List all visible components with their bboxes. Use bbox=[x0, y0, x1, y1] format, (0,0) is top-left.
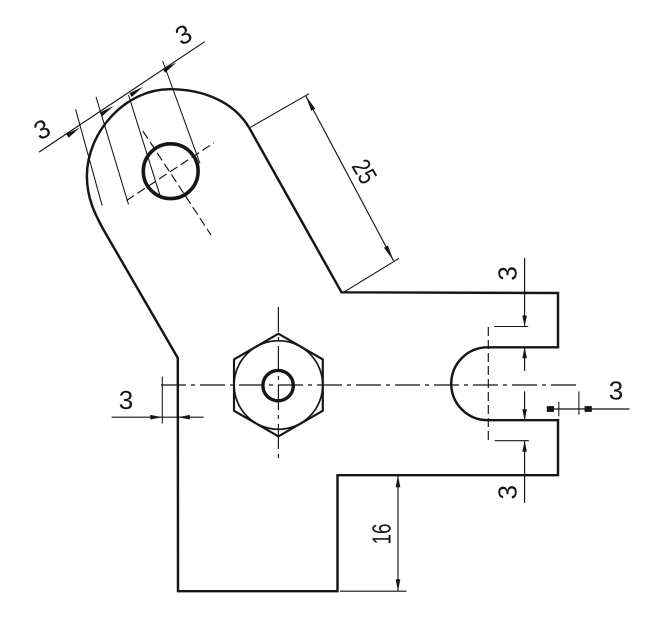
arm hole bbox=[143, 144, 198, 199]
chain arrow 4 bbox=[163, 63, 177, 73]
slot bottom dim down arrow bbox=[522, 409, 527, 420]
dim 16 extension line bbox=[340, 590, 406, 592]
right dim tick 1 bbox=[558, 402, 560, 416]
hex boss bbox=[234, 334, 323, 437]
main horizontal centerline bbox=[161, 384, 581, 386]
part outline bbox=[87, 89, 558, 591]
slot top dim extension line bbox=[494, 326, 528, 328]
right dim tick 2 bbox=[578, 391, 580, 414]
slot top dim up arrow bbox=[522, 347, 527, 358]
svg-text:3: 3 bbox=[493, 266, 523, 280]
slot top dim lower line bbox=[524, 347, 526, 371]
slot top dim down arrow bbox=[522, 316, 527, 327]
arm hole centerline transverse bbox=[127, 143, 215, 201]
chain arrow 1 bbox=[66, 128, 80, 138]
chain extension line 1 bbox=[76, 109, 103, 205]
svg-text:3: 3 bbox=[119, 385, 133, 415]
dim 16 down arrow bbox=[396, 579, 401, 591]
svg-text:3: 3 bbox=[609, 376, 623, 406]
slot bottom dim lower line bbox=[524, 441, 526, 503]
dim 25 arrow bottom bbox=[384, 246, 394, 261]
dim 25 extension bottom bbox=[344, 258, 399, 292]
dim 25 extension top bbox=[251, 94, 310, 128]
dim 16 line bbox=[397, 475, 399, 591]
chain dimension line top-left bbox=[39, 42, 205, 152]
chain arrow 3 bbox=[129, 87, 143, 97]
right dim 3 line bbox=[547, 408, 629, 410]
hex hole bbox=[263, 370, 293, 400]
chain arrow 2 bbox=[100, 106, 114, 116]
slot bottom dim up arrow bbox=[522, 441, 527, 452]
right dim arrow right bbox=[585, 406, 592, 412]
arm hole centerline axial bbox=[143, 131, 211, 235]
hex chamfer circle bbox=[234, 341, 323, 430]
left dim arrow left bbox=[150, 415, 162, 420]
slot top dim 3: upper line bbox=[524, 258, 526, 327]
dimension 25 line bbox=[306, 96, 394, 261]
slot bottom dim 3: upper line bbox=[524, 391, 526, 420]
chain extension line 2 bbox=[96, 97, 129, 204]
slot bottom dim extension line bbox=[495, 440, 529, 442]
dim 16 up arrow bbox=[396, 475, 401, 487]
chain extension line 4 bbox=[163, 61, 200, 163]
svg-text:16: 16 bbox=[367, 524, 397, 545]
svg-text:3: 3 bbox=[493, 485, 523, 499]
hex vertical centerline bbox=[277, 307, 279, 463]
left dim arrow right bbox=[178, 415, 190, 420]
dim 25 arrow top bbox=[306, 96, 316, 111]
chain extension line 3 bbox=[129, 95, 161, 198]
right dim arrow left bbox=[547, 406, 554, 412]
slot vertical hidden centerline bbox=[487, 327, 489, 441]
left dim tick bbox=[161, 377, 163, 424]
left dim 3 line bbox=[112, 416, 204, 418]
